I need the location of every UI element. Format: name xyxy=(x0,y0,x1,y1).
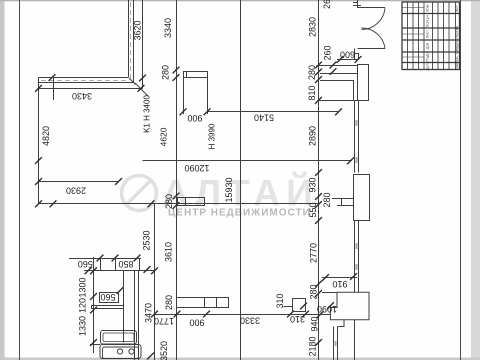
title block tiny texts xyxy=(426,4,459,70)
svg-text:Док: Док xyxy=(426,42,430,49)
door top stub line2 xyxy=(353,2,358,4)
svg-text:Запись: Запись xyxy=(454,56,459,69)
vestibule wall y80 xyxy=(320,80,353,82)
svg-text:3610: 3610 xyxy=(163,242,173,262)
door swing arc bottom xyxy=(362,28,386,49)
left wall / dim chain x38 xyxy=(38,77,40,204)
notch divider xyxy=(341,199,343,206)
svg-text:2830: 2830 xyxy=(307,17,317,37)
pilaster P1 rect xyxy=(184,72,208,78)
window mark d xyxy=(355,264,357,270)
vestibule wall y100 xyxy=(319,100,369,102)
svg-text:810: 810 xyxy=(307,85,317,100)
svg-text:Кол.уч: Кол.уч xyxy=(426,15,430,26)
svg-text:910: 910 xyxy=(332,279,347,289)
svg-text:Дата: Дата xyxy=(426,61,430,70)
svg-text:12090: 12090 xyxy=(184,163,209,173)
svg-text:600: 600 xyxy=(340,50,355,60)
svg-text:280: 280 xyxy=(322,192,332,207)
counter line left of sink xyxy=(90,344,100,346)
svg-text:560: 560 xyxy=(100,292,115,302)
witness x115 xyxy=(115,258,117,271)
svg-text:Свидетельство: Свидетельство xyxy=(454,25,459,54)
title block table xyxy=(402,2,460,70)
stove rounded rect xyxy=(100,345,141,359)
dim line 2530/3470/3520 x154 xyxy=(154,204,156,360)
witness x139 xyxy=(139,258,141,271)
svg-text:1300: 1300 xyxy=(77,277,87,297)
window mark b xyxy=(355,157,357,163)
svg-text:900: 900 xyxy=(189,318,204,328)
pilaster P2 inner line xyxy=(185,197,187,206)
scan edge line top xyxy=(0,0,480,1)
svg-text:ЦЕНТР НЕДВИЖИМОСТИ: ЦЕНТР НЕДВИЖИМОСТИ xyxy=(168,208,311,219)
svg-text:120: 120 xyxy=(77,298,87,313)
dim line 15930 x240 xyxy=(240,0,242,360)
witness line to lower block xyxy=(322,292,337,294)
notch bottom line xyxy=(337,205,353,207)
shelf left cap xyxy=(91,305,93,309)
svg-text:3470: 3470 xyxy=(143,303,153,323)
right wall outer to block xyxy=(354,287,356,292)
wall line x333 bottom xyxy=(333,327,335,360)
pilaster P1 inner line xyxy=(186,72,188,78)
dim line 12090 y161 xyxy=(143,160,353,162)
svg-text:3340: 3340 xyxy=(163,18,173,38)
stove burner circles xyxy=(117,349,122,354)
pilaster P3 divider xyxy=(216,298,218,308)
dim line 3620 x142 xyxy=(142,0,144,89)
witness x53 xyxy=(53,78,55,100)
svg-text:3330: 3330 xyxy=(240,316,260,326)
svg-text:3430: 3430 xyxy=(72,91,92,101)
wall line x134 xyxy=(134,271,136,360)
svg-text:15930: 15930 xyxy=(224,177,234,202)
pilaster P5 right wall xyxy=(354,175,370,221)
svg-text:4820: 4820 xyxy=(41,126,51,146)
svg-text:310: 310 xyxy=(290,314,305,324)
door swing arc top xyxy=(362,8,386,30)
svg-text:560: 560 xyxy=(78,259,93,269)
scan edge band bottom xyxy=(0,358,480,360)
vestibule wall y65 xyxy=(317,65,358,67)
svg-text:940: 940 xyxy=(309,316,319,331)
svg-text:Лист: Лист xyxy=(455,5,459,12)
wall W2 centreline dashed xyxy=(41,80,126,82)
dim line 3430 y88 xyxy=(39,88,143,90)
room wall line y204 xyxy=(39,203,319,205)
svg-text:3520: 3520 xyxy=(159,341,169,360)
watermark logo ring xyxy=(122,176,157,211)
svg-text:1770: 1770 xyxy=(154,316,174,326)
svg-text:280: 280 xyxy=(164,194,174,209)
tick 900 left xyxy=(180,108,187,115)
wall W2 inner line xyxy=(39,77,129,79)
svg-text:260: 260 xyxy=(322,45,332,60)
svg-text:2180: 2180 xyxy=(307,336,317,356)
tick wall W2 left end xyxy=(49,74,56,81)
wall line y271 xyxy=(84,270,155,272)
dim chain line y314 xyxy=(155,314,331,316)
wall line x354 bottom xyxy=(354,320,356,360)
svg-text:2610: 2610 xyxy=(322,0,332,9)
witness line P1 right xyxy=(207,78,209,115)
dim line 910 y277 xyxy=(322,277,357,279)
door hinge top xyxy=(357,0,359,8)
svg-text:850: 850 xyxy=(118,259,133,269)
shelf bottom line xyxy=(91,308,123,310)
wall line x138 xyxy=(138,271,140,360)
svg-text:900: 900 xyxy=(187,113,202,123)
wall line y307 to pilaster xyxy=(177,307,204,309)
tick bottom of 3620 line xyxy=(139,75,146,82)
door top stub line xyxy=(353,5,361,7)
dim line 600 door xyxy=(337,59,358,61)
svg-text:5140: 5140 xyxy=(254,113,274,123)
pilaster P2 rect xyxy=(178,198,205,206)
dim line 2930 y181 xyxy=(39,181,119,183)
vestibule wall x353 xyxy=(353,80,355,100)
pilaster P4 square xyxy=(293,299,306,312)
scan edge band right xyxy=(471,0,480,360)
svg-text:280: 280 xyxy=(160,65,170,80)
wall W2 outer line xyxy=(39,82,134,84)
wall corner diagonal xyxy=(129,78,136,85)
door stub cap xyxy=(355,53,359,55)
right wall outer x354 upper xyxy=(354,100,356,172)
wall W1 outer line xyxy=(133,0,135,83)
wall W1 inner line xyxy=(128,0,130,77)
dim line right chain x318 xyxy=(318,0,320,360)
svg-text:3620: 3620 xyxy=(132,20,142,40)
svg-text:Изм: Изм xyxy=(426,4,430,11)
sheet frame right xyxy=(460,0,462,360)
svg-text:550: 550 xyxy=(308,202,318,217)
svg-text:2930: 2930 xyxy=(66,186,86,196)
right wall inner to block xyxy=(358,287,360,292)
svg-text:H 3990: H 3990 xyxy=(208,123,217,149)
pilaster P3 rect xyxy=(205,298,229,308)
dim line 560/850 y258 xyxy=(69,258,141,260)
cupboard 560 box xyxy=(100,293,119,303)
svg-text:280: 280 xyxy=(308,284,318,299)
svg-text:Лист: Лист xyxy=(426,30,430,39)
right wall inner x358 upper xyxy=(358,100,360,172)
door bottom stub inner xyxy=(358,53,360,60)
shelf top line xyxy=(91,305,123,307)
dim chain 1300/120/1330 x93 xyxy=(93,257,95,353)
right wall outer x354 mid xyxy=(354,221,356,288)
svg-text:1330: 1330 xyxy=(77,316,87,336)
witness x100 xyxy=(100,258,102,271)
leader to P4 xyxy=(284,306,293,308)
window mark c xyxy=(355,243,357,249)
svg-text:310: 310 xyxy=(275,293,285,308)
svg-text:2890: 2890 xyxy=(307,126,317,146)
svg-text:2530: 2530 xyxy=(141,230,151,250)
scan edge band left xyxy=(0,0,5,360)
vestibule wall y73 xyxy=(320,73,357,75)
right wall inner x358 mid xyxy=(358,221,360,288)
door bottom stub outer xyxy=(354,49,356,60)
leader line K1 xyxy=(135,83,148,96)
door leaf top xyxy=(358,7,386,9)
svg-text:Подп: Подп xyxy=(426,52,430,61)
entry block rect xyxy=(358,65,369,101)
tick 4820/left chain xyxy=(35,157,42,164)
wall W1 centreline dashed xyxy=(130,2,132,78)
tick 280 on x176 y196 xyxy=(173,193,180,200)
svg-text:4620: 4620 xyxy=(158,127,168,146)
cupboard line x123 xyxy=(123,271,125,343)
lower entry wall block polygon xyxy=(337,292,369,326)
dim line 5140 y112 xyxy=(207,111,339,113)
svg-text:280: 280 xyxy=(164,295,174,310)
svg-text:1090: 1090 xyxy=(317,304,337,314)
sheet frame left xyxy=(19,0,21,360)
witness line P1 left xyxy=(183,78,185,115)
svg-text:280: 280 xyxy=(307,65,317,80)
notch top line xyxy=(332,198,353,200)
window mark e xyxy=(334,341,336,346)
wall line y297 to pilaster xyxy=(177,297,204,299)
wall line x337 bottom xyxy=(337,327,339,360)
sink unit rounded rect xyxy=(101,331,137,345)
svg-text:2770: 2770 xyxy=(308,243,318,263)
door leaf bottom xyxy=(358,48,386,50)
svg-text:930: 930 xyxy=(307,177,317,192)
tick 280 top on x176 xyxy=(173,67,180,74)
svg-text:K1 H 3400: K1 H 3400 xyxy=(143,95,152,133)
dim line x176 full height xyxy=(176,0,178,360)
window mark a xyxy=(355,120,357,126)
